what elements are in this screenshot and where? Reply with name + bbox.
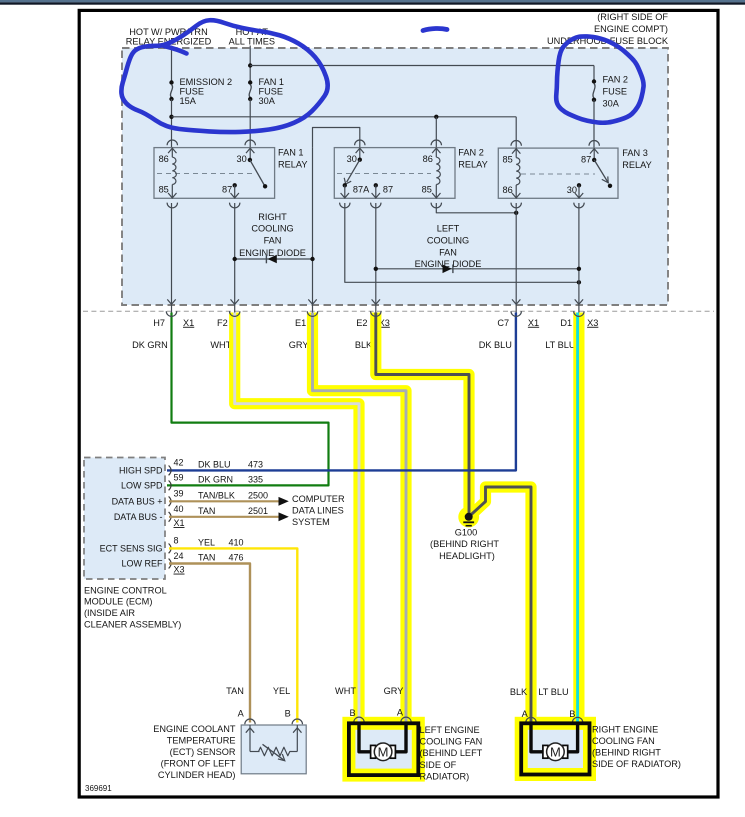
svg-text:2501: 2501 <box>248 506 268 516</box>
label: hot at all times <box>229 27 275 46</box>
connector arcs fan1 relay <box>167 140 255 208</box>
svg-text:WHT: WHT <box>335 686 356 696</box>
svg-text:YEL: YEL <box>273 686 290 696</box>
svg-text:85: 85 <box>502 154 512 164</box>
svg-text:COOLING: COOLING <box>427 236 469 246</box>
relay pin 87 (fan2) <box>372 183 394 198</box>
ECM pin numbers and wire labels <box>174 458 235 563</box>
svg-text:DATA BUS +: DATA BUS + <box>112 496 163 506</box>
svg-text:LT BLU: LT BLU <box>545 340 575 350</box>
svg-text:LOW REF: LOW REF <box>121 559 163 569</box>
svg-text:410: 410 <box>229 538 244 548</box>
wire: fan1 fuse to fan1 relay 30 <box>249 99 251 148</box>
svg-text:COOLING FAN: COOLING FAN <box>592 736 655 746</box>
annotation: blue dash top right <box>423 28 447 30</box>
svg-text:LT BLU: LT BLU <box>538 687 568 697</box>
relay coil pin 86 (fan3) <box>502 185 520 198</box>
label TAN at ECT pin A <box>226 686 244 696</box>
wire BLK: G100 to right fan pin A <box>471 487 531 722</box>
svg-text:RADIATOR): RADIATOR) <box>420 771 470 781</box>
wire: fan3-30 down to D1 <box>578 203 580 305</box>
right fan pins A and B <box>522 709 583 723</box>
wire: hot feed to fan 1 fuse <box>249 46 251 83</box>
ECM circuit numbers <box>229 460 269 563</box>
svg-text:15A: 15A <box>180 96 197 106</box>
svg-text:85: 85 <box>159 185 169 195</box>
label: left cooling fan engine diode <box>415 223 482 269</box>
label YEL at ECT pin B <box>273 686 290 696</box>
svg-text:473: 473 <box>248 460 263 470</box>
svg-text:LOW SPD: LOW SPD <box>121 481 163 491</box>
svg-text:E1: E1 <box>295 318 306 328</box>
svg-text:42: 42 <box>174 458 184 468</box>
svg-text:X1: X1 <box>174 518 185 528</box>
wire TAN 2501 to data lines <box>169 512 289 521</box>
svg-text:85: 85 <box>422 185 432 195</box>
svg-text:H7: H7 <box>153 318 165 328</box>
svg-text:COMPUTER: COMPUTER <box>292 494 345 504</box>
wire: fan2-85 jog to fan3-86 <box>436 203 516 213</box>
relay switch blade (fan2, closed to 87A) <box>344 160 360 184</box>
wire BLK: E2 to ground G100 <box>376 313 469 514</box>
svg-text:(ECT) SENSOR: (ECT) SENSOR <box>170 747 236 757</box>
ECM connector ids X1 X3 <box>174 518 185 575</box>
svg-text:39: 39 <box>174 489 184 499</box>
svg-text:86: 86 <box>423 154 433 164</box>
svg-text:87: 87 <box>581 154 591 164</box>
relay pin 87A (fan2) <box>341 183 371 198</box>
label: G100 (behind right headlight) <box>430 527 499 561</box>
wire: fan2-87A jog to fan3-30 run <box>345 203 579 282</box>
node: coil bus junction at emission fuse <box>169 115 173 119</box>
relay switch blade (fan1, open) <box>250 160 267 189</box>
wire LT BLU: D1 to right fan pin B <box>576 313 579 723</box>
svg-text:A: A <box>397 708 404 718</box>
svg-text:M: M <box>378 745 389 760</box>
svg-text:DATA BUS -: DATA BUS - <box>114 512 163 522</box>
svg-text:LEFT: LEFT <box>437 223 460 233</box>
svg-text:D1: D1 <box>560 318 572 328</box>
svg-text:(RIGHT SIDE OF: (RIGHT SIDE OF <box>597 12 668 22</box>
svg-text:CYLINDER HEAD): CYLINDER HEAD) <box>158 770 236 780</box>
connector arcs fan3 relay <box>511 140 599 207</box>
svg-text:86: 86 <box>159 154 169 164</box>
label: engine coolant temperature (ECT) sensor <box>153 724 236 780</box>
wire color labels <box>132 340 575 350</box>
highlighter: left fan box <box>349 723 418 775</box>
svg-text:WHT: WHT <box>210 340 231 350</box>
node: fan2-85 joins fan3-86 run <box>514 211 518 215</box>
svg-text:30A: 30A <box>259 96 276 106</box>
svg-text:GRY: GRY <box>384 686 404 696</box>
svg-text:RELAY: RELAY <box>458 160 487 170</box>
highlighter: LT BLU run <box>573 313 584 723</box>
svg-text:ENGINE COOLANT: ENGINE COOLANT <box>153 724 236 734</box>
labels WHT GRY at left fan <box>335 686 403 696</box>
wire DK GRN: H7 to ECM pin 59 <box>167 313 329 486</box>
ECM pin brackets <box>169 466 172 569</box>
label: hot w/ pwr/trn relay energized <box>126 27 212 46</box>
svg-text:C7: C7 <box>497 318 509 328</box>
fuse: FAN 2 FUSE 30A <box>592 75 628 109</box>
svg-text:40: 40 <box>174 504 184 514</box>
relay FAN 1 RELAY box <box>154 148 307 199</box>
node: fan2 relay 86 branch <box>434 115 438 119</box>
svg-text:TAN: TAN <box>198 553 215 563</box>
highlighter: BLK run to G100 <box>376 313 469 515</box>
wire TAN: ECM pin 24 to ECT pin A <box>169 564 250 723</box>
svg-text:E2: E2 <box>356 318 367 328</box>
svg-text:RIGHT: RIGHT <box>258 212 287 222</box>
wire: fan1-87 down to F2 <box>234 203 236 305</box>
svg-text:24: 24 <box>174 551 184 561</box>
ground G100 <box>463 513 474 526</box>
wire: hot feed to emission 2 fuse <box>171 46 173 83</box>
underhood fuse block (dashed box) <box>122 48 668 305</box>
relay pin 30 (fan2) <box>347 148 364 164</box>
svg-text:BLK: BLK <box>510 687 528 697</box>
svg-text:(BEHIND RIGHT: (BEHIND RIGHT <box>592 747 661 757</box>
svg-text:A: A <box>238 709 245 719</box>
svg-text:ALL TIMES: ALL TIMES <box>229 36 275 46</box>
svg-text:YEL: YEL <box>198 538 215 548</box>
svg-text:FAN 2: FAN 2 <box>603 75 629 85</box>
svg-text:59: 59 <box>174 473 184 483</box>
highlighter: GRY run <box>313 313 407 723</box>
node: fan2 fuse feed junction <box>248 63 252 67</box>
label: engine control module (ECM) <box>84 585 181 629</box>
svg-text:FAN 2: FAN 2 <box>458 148 484 158</box>
wire: bus down to fan3 relay 85 <box>515 117 517 148</box>
relay pin 87 (fan1) <box>222 183 239 198</box>
svg-text:RIGHT ENGINE: RIGHT ENGINE <box>592 725 658 735</box>
fuse: FAN 1 FUSE 30A <box>248 77 284 106</box>
svg-text:(BEHIND RIGHT: (BEHIND RIGHT <box>430 539 499 549</box>
svg-text:GRY: GRY <box>289 340 309 350</box>
svg-text:CLEANER ASSEMBLY): CLEANER ASSEMBLY) <box>84 620 181 630</box>
svg-text:30: 30 <box>236 154 246 164</box>
svg-text:FAN 1: FAN 1 <box>278 148 304 158</box>
diode: right cooling fan engine diode <box>266 255 276 264</box>
svg-text:(FRONT OF LEFT: (FRONT OF LEFT <box>161 759 236 769</box>
annotation: blue circle around fan2 fuse <box>556 36 643 122</box>
wire: right cooling fan diode link <box>233 257 315 261</box>
arrows at fuse block exit <box>167 299 583 304</box>
svg-text:B: B <box>349 708 355 718</box>
svg-text:TAN: TAN <box>226 686 244 696</box>
wire YEL: ECM pin 8 to ECT pin B <box>169 548 297 722</box>
label: right side of engine compt, underhood fuse block <box>547 12 669 46</box>
wire: feed across to fan 2 fuse <box>250 66 594 82</box>
window top bar <box>0 0 745 5</box>
wire TAN/BLK 2500 to data lines <box>169 497 289 506</box>
svg-text:FAN: FAN <box>264 236 282 246</box>
svg-text:TAN: TAN <box>198 506 215 516</box>
label: right cooling fan engine diode <box>239 212 306 258</box>
labels BLK LT BLU at right fan <box>510 687 569 697</box>
svg-text:DK BLU: DK BLU <box>198 460 231 470</box>
connector arcs fan2 relay <box>340 140 442 208</box>
wire: E1 run down from fan2-30 feeder <box>312 148 314 305</box>
svg-text:ENGINE COMPT): ENGINE COMPT) <box>594 24 668 34</box>
connector pass-through arcs <box>166 311 584 316</box>
svg-text:476: 476 <box>229 553 244 563</box>
wire WHT: F2 to left fan pin B <box>235 313 359 723</box>
svg-text:DATA LINES: DATA LINES <box>292 506 344 516</box>
svg-text:X3: X3 <box>174 565 185 575</box>
svg-text:X3: X3 <box>587 318 598 328</box>
svg-text:X1: X1 <box>183 318 194 328</box>
svg-text:FAN: FAN <box>439 247 457 257</box>
relay coil pin 85 (fan3) <box>502 148 520 185</box>
annotation: blue circle around emission2/fan1 fuses <box>121 20 327 132</box>
svg-text:(INSIDE AIR: (INSIDE AIR <box>84 608 135 618</box>
svg-text:FAN 3: FAN 3 <box>622 148 648 158</box>
svg-text:A: A <box>522 709 529 719</box>
svg-text:COOLING: COOLING <box>251 223 293 233</box>
diode: left cooling fan engine diode <box>443 265 453 274</box>
label: right engine cooling fan <box>592 725 681 769</box>
svg-text:HIGH SPD: HIGH SPD <box>119 466 163 476</box>
relay coil pin 86 (fan2) <box>423 148 441 185</box>
relay pin 30 (fan3) <box>567 183 583 198</box>
svg-text:2500: 2500 <box>248 490 268 500</box>
wire: fan3-86 down to C7 <box>515 203 517 305</box>
svg-text:87: 87 <box>383 185 393 195</box>
wire: fan2 fuse to fan3 relay 87 <box>593 100 595 148</box>
svg-text:DK GRN: DK GRN <box>198 475 233 485</box>
svg-text:X1: X1 <box>528 318 539 328</box>
wire: relay coil supply bus <box>172 116 517 118</box>
label: left engine cooling fan <box>420 725 483 781</box>
harness connector dashed line <box>83 310 714 312</box>
pin labels H7 X1 F2 E1 E2 X3 C7 X1 D1 X3 <box>153 318 598 328</box>
ECM left labels <box>100 466 163 569</box>
svg-text:TAN/BLK: TAN/BLK <box>198 490 235 500</box>
highlighter: WHT run <box>235 313 359 723</box>
relay coil pin 85 (fan1) <box>159 185 177 199</box>
svg-text:COOLING FAN: COOLING FAN <box>420 737 483 747</box>
svg-text:SIDE OF RADIATOR): SIDE OF RADIATOR) <box>592 759 681 769</box>
relay switch blade (fan3) <box>594 160 612 188</box>
highlighter: G100 to right fan BLK run <box>471 487 532 722</box>
svg-text:369691: 369691 <box>85 784 112 793</box>
wire GRY: E1 to left fan pin A <box>313 313 407 723</box>
relay coil pin 86 (fan1) <box>159 148 177 185</box>
node: 87A joins fan3-30 run <box>577 280 581 284</box>
wire: fan2 relay 30 feeder (to E1 run) <box>313 128 360 148</box>
svg-text:B: B <box>285 709 291 719</box>
relay FAN 3 RELAY box <box>498 148 651 198</box>
annotation: blue pen tail hook <box>164 46 187 54</box>
svg-text:RELAY: RELAY <box>278 160 307 170</box>
motor M2: RIGHT ENGINE COOLING FAN <box>521 723 589 774</box>
svg-text:DK GRN: DK GRN <box>132 340 168 350</box>
wire: fan2-87 down to E2 <box>375 203 377 305</box>
wire: fan1-85 down to H7 <box>171 203 173 305</box>
svg-text:87A: 87A <box>353 185 370 195</box>
ECT thermistor element <box>246 725 302 761</box>
svg-text:TEMPERATURE: TEMPERATURE <box>167 735 236 745</box>
svg-text:(BEHIND LEFT: (BEHIND LEFT <box>420 748 483 758</box>
ECT sensor pins A and B <box>238 709 303 725</box>
svg-text:RELAY: RELAY <box>622 160 651 170</box>
svg-text:ECT SENS SIG: ECT SENS SIG <box>100 544 163 554</box>
svg-text:F2: F2 <box>217 318 228 328</box>
left fan pins B and A <box>349 708 411 723</box>
svg-text:335: 335 <box>248 475 263 485</box>
svg-text:LEFT ENGINE: LEFT ENGINE <box>420 725 480 735</box>
relay pin 30 (fan1) <box>236 148 254 164</box>
wire stubs through connector row <box>172 305 579 313</box>
svg-text:MODULE (ECM): MODULE (ECM) <box>84 597 152 607</box>
highlighter: G100 blob <box>458 507 479 528</box>
wire: left cooling fan diode link <box>374 267 582 271</box>
svg-text:HEADLIGHT): HEADLIGHT) <box>439 551 495 561</box>
relay FAN 2 RELAY box <box>334 148 487 199</box>
wire: bus down to fan2 relay 86 <box>435 117 437 148</box>
svg-text:M: M <box>550 745 561 760</box>
svg-text:8: 8 <box>174 536 179 546</box>
svg-text:B: B <box>569 709 575 719</box>
highlighter: right fan box <box>521 723 589 774</box>
relay pin 87 (fan3) <box>581 148 598 164</box>
wire: emission2 fuse to fan1 relay 86 <box>171 99 173 148</box>
wire DK BLU: C7 to ECM pin 42 <box>167 313 516 471</box>
svg-text:86: 86 <box>502 185 512 195</box>
svg-text:SYSTEM: SYSTEM <box>292 517 330 527</box>
svg-text:ENGINE DIODE: ENGINE DIODE <box>239 248 306 258</box>
motor M1: LEFT ENGINE COOLING FAN <box>349 723 418 775</box>
svg-text:G100: G100 <box>455 527 477 537</box>
svg-text:ENGINE CONTROL: ENGINE CONTROL <box>84 585 167 595</box>
svg-text:DK BLU: DK BLU <box>479 340 512 350</box>
ECT sensor box <box>241 725 306 774</box>
fuse: EMISSION 2 FUSE 15A <box>169 77 232 106</box>
document number 369691 <box>85 784 112 793</box>
ECM dashed box <box>84 458 165 580</box>
svg-text:30A: 30A <box>603 99 620 109</box>
relay coil pin 85 (fan2) <box>422 185 441 199</box>
svg-text:30: 30 <box>347 154 357 164</box>
svg-text:FUSE: FUSE <box>603 87 628 97</box>
svg-text:SIDE OF: SIDE OF <box>420 760 457 770</box>
label: computer data lines system <box>292 494 345 527</box>
